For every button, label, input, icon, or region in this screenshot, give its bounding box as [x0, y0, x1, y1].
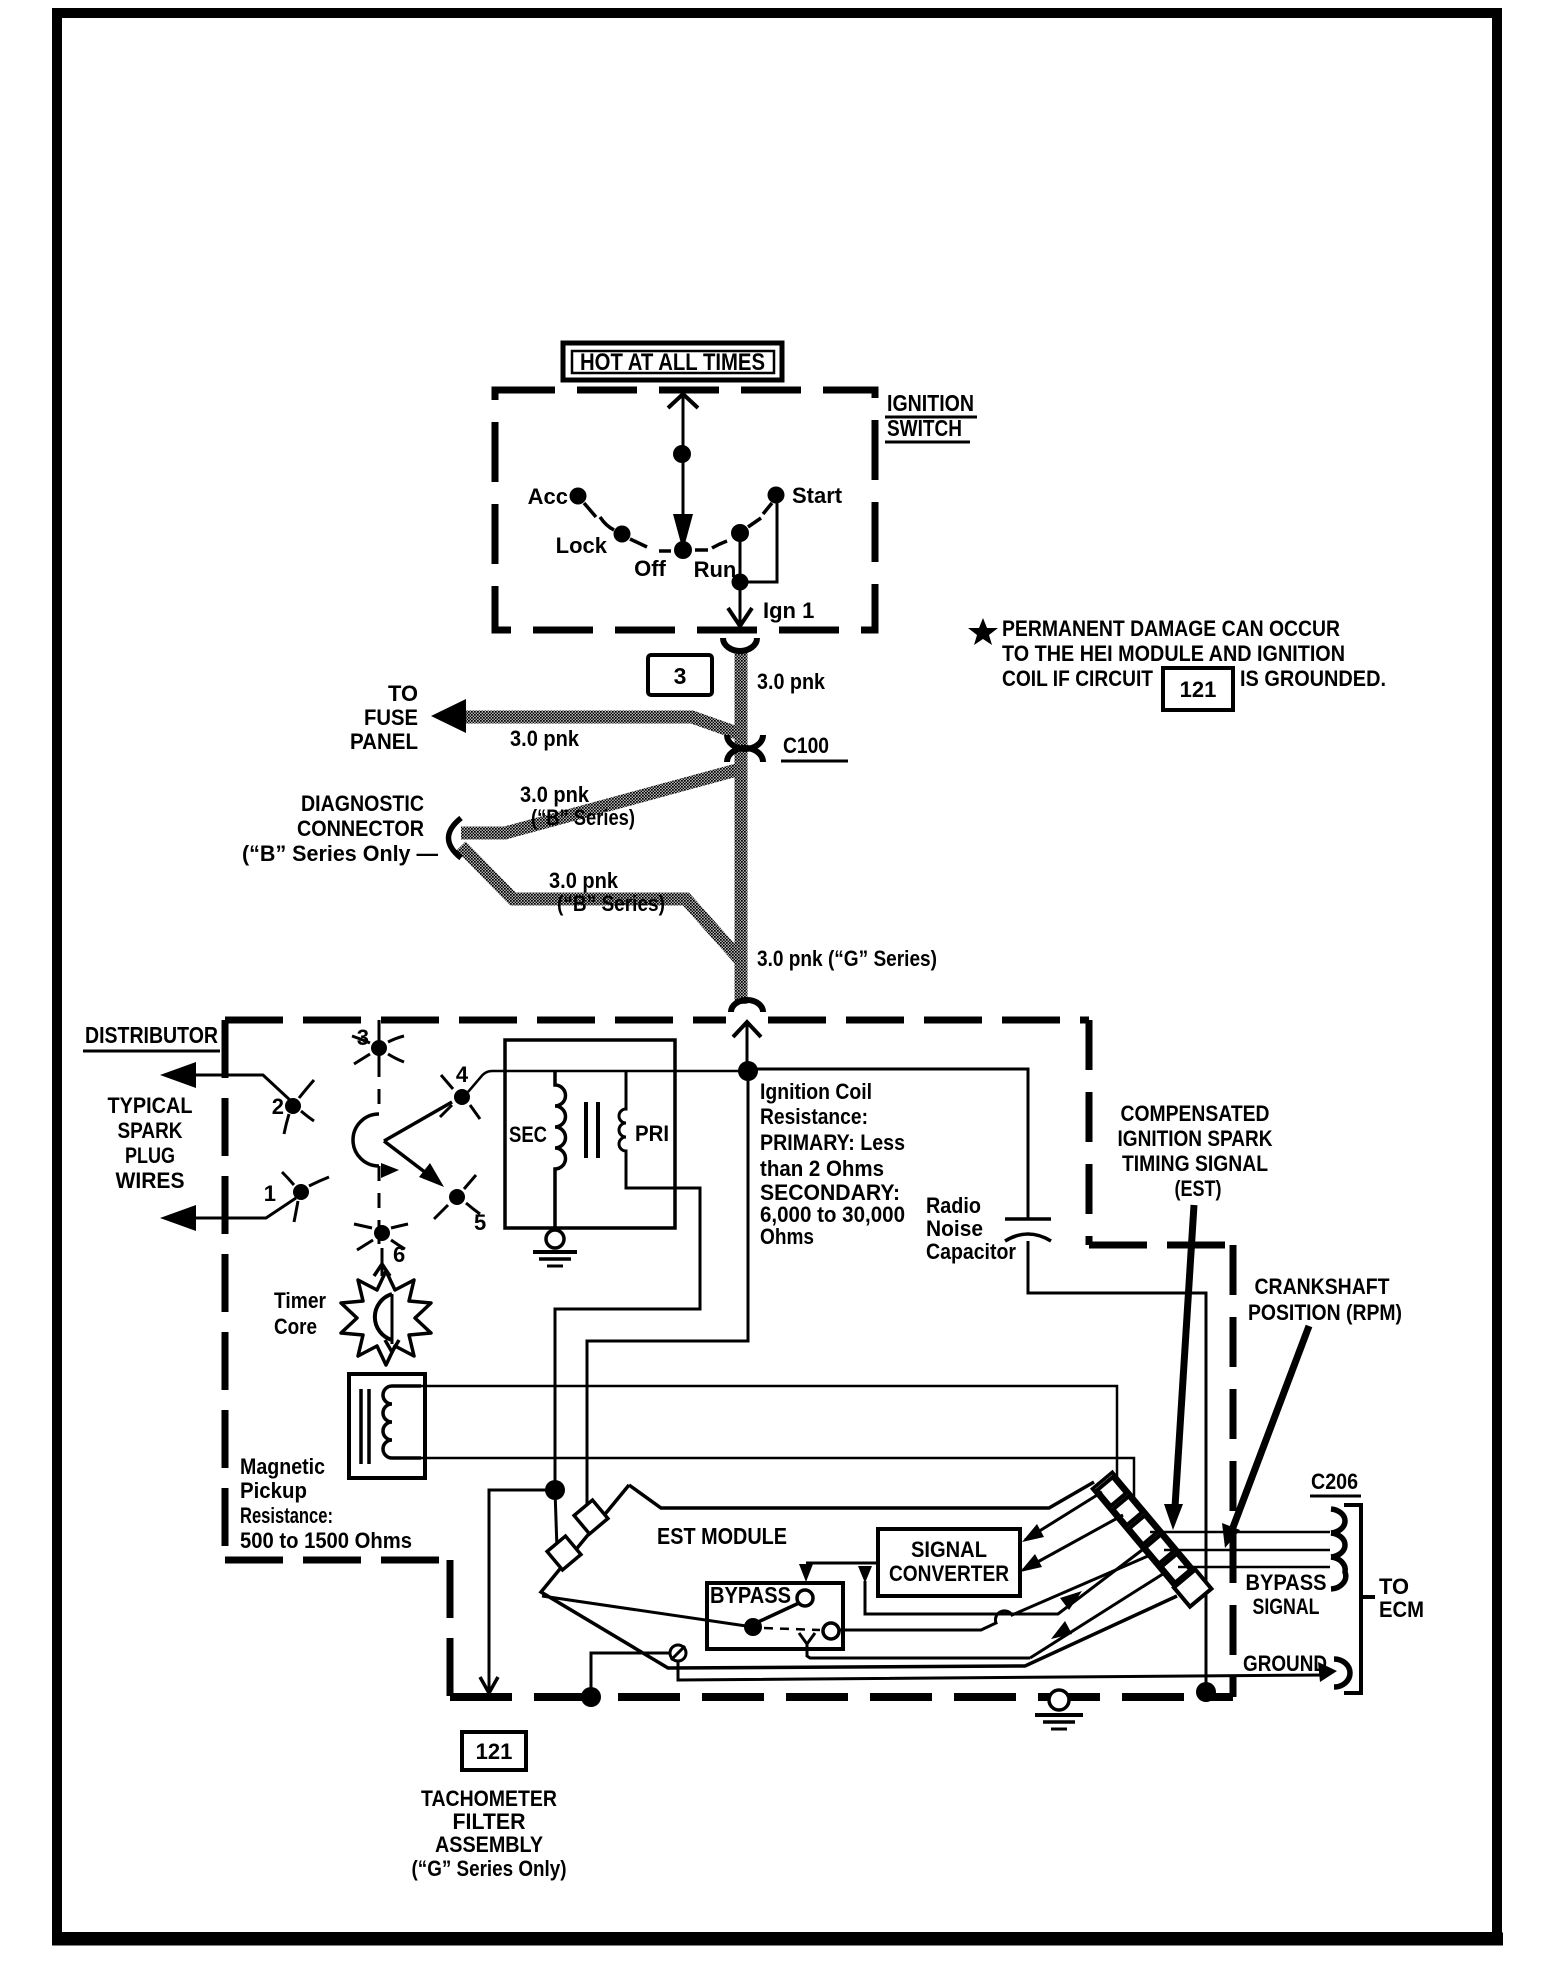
wire terminal 4 to coil [468, 1071, 748, 1092]
svg-text:Pickup: Pickup [240, 1478, 307, 1503]
bypass switch [542, 1596, 753, 1627]
svg-text:EST MODULE: EST MODULE [657, 1523, 787, 1549]
svg-text:WIRES: WIRES [116, 1168, 185, 1193]
svg-text:Run: Run [694, 557, 737, 582]
svg-text:TIMING SIGNAL: TIMING SIGNAL [1122, 1151, 1268, 1176]
hot at all times box [563, 343, 782, 380]
svg-text:3.0 pnk: 3.0 pnk [549, 868, 619, 893]
svg-text:ECM: ECM [1379, 1597, 1424, 1622]
rotor [378, 1062, 381, 1114]
wire feed from HOT to switch [668, 394, 698, 408]
svg-text:121: 121 [1180, 677, 1217, 702]
svg-text:(“B” Series Only —: (“B” Series Only — [242, 841, 438, 866]
connector half below switch [723, 638, 757, 651]
terminal 1 [293, 1184, 309, 1200]
arrow to Off contact [673, 514, 693, 551]
svg-text:500 to 1500 Ohms: 500 to 1500 Ohms [240, 1528, 412, 1553]
spark plug wire arrow lower [176, 1198, 296, 1218]
svg-text:TYPICAL: TYPICAL [108, 1093, 193, 1118]
svg-text:Magnetic: Magnetic [240, 1454, 325, 1479]
junction node right [1196, 1682, 1216, 1702]
svg-text:TO THE HEI MODULE AND IGNITION: TO THE HEI MODULE AND IGNITION [1002, 641, 1345, 666]
svg-text:ASSEMBLY: ASSEMBLY [435, 1832, 543, 1857]
ground symbol on dashed line [1049, 1690, 1069, 1710]
svg-text:3.0 pnk: 3.0 pnk [520, 782, 590, 807]
terminal 6 [378, 1225, 381, 1244]
svg-text:HOT AT ALL TIMES: HOT AT ALL TIMES [580, 349, 765, 376]
svg-text:1: 1 [264, 1181, 276, 1206]
svg-text:SIGNAL: SIGNAL [911, 1537, 987, 1562]
circuit box 121 (tach) [462, 1732, 526, 1770]
svg-text:SPARK: SPARK [118, 1118, 183, 1143]
C206 connector arcs [1331, 1509, 1345, 1533]
SEC winding [555, 1071, 566, 1228]
to fuse panel arrow [431, 699, 466, 733]
svg-text:4: 4 [456, 1062, 469, 1087]
wire diagnostic branch upper (gray stipple) [461, 768, 744, 833]
svg-text:3.0 pnk: 3.0 pnk [510, 726, 580, 751]
svg-text:Ignition Coil: Ignition Coil [760, 1079, 872, 1104]
terminal 2 [285, 1098, 301, 1114]
svg-text:C206: C206 [1311, 1469, 1358, 1494]
timer core star [341, 1271, 431, 1365]
contact Start [768, 487, 785, 504]
svg-text:C100: C100 [783, 733, 829, 758]
svg-text:(EST): (EST) [1175, 1176, 1222, 1201]
coil ground [546, 1230, 564, 1248]
diagnostic connector symbol [449, 818, 462, 858]
svg-text:3: 3 [674, 663, 687, 689]
wire into signal converter left [806, 1562, 878, 1565]
wire into converter area with down arrow [865, 1544, 1150, 1614]
svg-text:Timer: Timer [274, 1288, 326, 1313]
module wire A to signal converter top [1025, 1492, 1102, 1540]
terminal 4 [454, 1089, 470, 1105]
ignition switch dashed box [495, 390, 875, 630]
svg-text:GROUND: GROUND [1243, 1651, 1327, 1676]
star note [968, 618, 998, 645]
svg-text:PANEL: PANEL [350, 729, 418, 754]
svg-text:BYPASS: BYPASS [1246, 1570, 1327, 1595]
module wire B to signal converter right [1023, 1515, 1123, 1570]
C206 bracket [1344, 1505, 1361, 1693]
crankshaft pointer arrow [1232, 1326, 1309, 1530]
svg-text:Ign 1: Ign 1 [763, 598, 814, 623]
PRI winding [555, 1071, 700, 1482]
svg-text:DISTRIBUTOR: DISTRIBUTOR [85, 1022, 218, 1048]
distributor dashed boundary [225, 1017, 726, 1024]
pickup wires to module connector [421, 1386, 1117, 1489]
svg-text:(“B” Series): (“B” Series) [531, 805, 635, 830]
magnetic pickup [349, 1374, 425, 1478]
circuit box 121 (note) [1163, 668, 1233, 710]
svg-text:PRIMARY: Less: PRIMARY: Less [760, 1130, 905, 1155]
svg-text:IGNITION SPARK: IGNITION SPARK [1118, 1126, 1273, 1151]
svg-text:Core: Core [274, 1314, 317, 1339]
svg-text:5: 5 [474, 1210, 486, 1235]
arrow up to timer core [381, 1248, 384, 1276]
wire diagnostic branch lower (gray stipple) [461, 846, 743, 963]
connector into distributor box [731, 1000, 763, 1012]
svg-text:Radio: Radio [926, 1193, 981, 1218]
wire junction down to EST module [587, 1081, 748, 1512]
coil core bars [584, 1102, 588, 1158]
svg-text:PERMANENT DAMAGE CAN OCCUR: PERMANENT DAMAGE CAN OCCUR [1002, 616, 1340, 641]
svg-text:(“B” Series): (“B” Series) [557, 891, 665, 916]
connector C100 [727, 735, 763, 749]
signal converter box [878, 1529, 1020, 1596]
radio noise capacitor [1005, 1217, 1051, 1221]
SECTION1 [83, 1020, 1402, 1697]
contact Off [674, 541, 692, 559]
svg-text:3.0 pnk (“G” Series): 3.0 pnk (“G” Series) [757, 946, 937, 971]
svg-text:SIGNAL: SIGNAL [1253, 1594, 1320, 1619]
svg-text:Ohms: Ohms [760, 1224, 814, 1249]
bypass Y arrow and wire [799, 1633, 815, 1644]
EST pointer arrow [1175, 1205, 1194, 1507]
svg-text:FILTER: FILTER [453, 1809, 526, 1834]
module wire D to bypass stem [1030, 1572, 1166, 1658]
wire 3.0 pnk main vertical (gray stipple) [735, 650, 748, 1004]
rotation arc Acc-Lock [600, 517, 614, 530]
wire to fuse panel (gray stipple) [463, 717, 740, 734]
svg-text:Lock: Lock [556, 533, 608, 558]
terminal 3 [378, 1020, 381, 1062]
svg-text:Capacitor: Capacitor [926, 1239, 1016, 1264]
svg-text:TO: TO [388, 681, 418, 706]
wire junction to Start [740, 500, 777, 582]
ground screw on module [670, 1645, 686, 1661]
terminal 5 [449, 1189, 465, 1205]
svg-text:3: 3 [357, 1025, 369, 1050]
wire Run to junction [739, 542, 742, 582]
svg-text:Acc: Acc [528, 484, 568, 509]
svg-text:BYPASS: BYPASS [710, 1582, 791, 1608]
svg-text:POSITION (RPM): POSITION (RPM) [1248, 1300, 1402, 1325]
connector band with pins [1092, 1472, 1212, 1607]
svg-text:COMPENSATED: COMPENSATED [1121, 1101, 1270, 1126]
wires from connector to C206 [1150, 1531, 1330, 1534]
svg-text:FUSE: FUSE [364, 705, 418, 730]
module tab 1 [574, 1500, 608, 1534]
svg-text:IS GROUNDED.: IS GROUNDED. [1240, 666, 1386, 691]
svg-text:IGNITION: IGNITION [887, 390, 974, 416]
svg-text:PLUG: PLUG [125, 1143, 175, 1168]
svg-text:SEC: SEC [509, 1122, 547, 1147]
SECTION2 [412, 1469, 1425, 1881]
circuit box 3 [648, 655, 712, 695]
wire Ign 1 down with arrow [739, 590, 742, 627]
svg-text:SWITCH: SWITCH [887, 415, 962, 441]
wire from bypass circle to connector (with hop) [839, 1556, 1148, 1630]
svg-text:(“G” Series Only): (“G” Series Only) [412, 1856, 567, 1881]
svg-text:Start: Start [792, 483, 843, 508]
svg-text:Off: Off [634, 556, 666, 581]
EST module outline [629, 1482, 1094, 1508]
contact Lock [614, 526, 631, 543]
wire junction to capacitor [748, 1069, 1028, 1219]
node on feed wire [673, 445, 691, 463]
junction to box edge [591, 1653, 670, 1697]
svg-text:CONVERTER: CONVERTER [889, 1561, 1009, 1586]
svg-text:CONNECTOR: CONNECTOR [297, 816, 424, 841]
contact Run [731, 524, 749, 542]
svg-text:TACHOMETER: TACHOMETER [421, 1786, 557, 1811]
ground wire from module to C206 [678, 1661, 1326, 1680]
svg-text:COIL IF CIRCUIT: COIL IF CIRCUIT [1002, 666, 1153, 691]
svg-text:121: 121 [476, 1739, 513, 1764]
spark plug wire arrow upper [176, 1075, 291, 1101]
svg-text:6: 6 [393, 1242, 405, 1267]
bypass box [707, 1583, 843, 1649]
svg-text:2: 2 [272, 1094, 284, 1119]
contact Acc [570, 488, 587, 505]
ignition coil box [505, 1040, 675, 1228]
svg-text:Resistance:: Resistance: [760, 1104, 868, 1129]
svg-text:TO: TO [1379, 1574, 1409, 1599]
junction node coil top [738, 1061, 758, 1081]
svg-text:Noise: Noise [926, 1216, 983, 1241]
module tab 2 [547, 1536, 581, 1570]
svg-text:than 2 Ohms: than 2 Ohms [760, 1156, 884, 1181]
svg-text:DIAGNOSTIC: DIAGNOSTIC [301, 791, 424, 816]
svg-text:PRI: PRI [635, 1121, 669, 1146]
junction node pickup branch [545, 1480, 565, 1500]
svg-text:CRANKSHAFT: CRANKSHAFT [1255, 1274, 1390, 1299]
svg-text:Resistance:: Resistance: [240, 1503, 333, 1528]
junction node [732, 574, 749, 591]
svg-text:3.0 pnk: 3.0 pnk [757, 669, 826, 694]
